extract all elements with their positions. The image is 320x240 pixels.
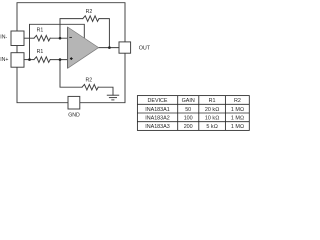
junction node supply tap [28, 58, 31, 61]
table row INA183A2 [145, 116, 244, 122]
wire IN- lead [24, 37, 34, 39]
pin box GND [68, 96, 80, 109]
svg-text:1 MΩ: 1 MΩ [231, 116, 244, 122]
svg-text:5 kΩ: 5 kΩ [206, 124, 217, 130]
op-amp U1 [68, 27, 99, 68]
pin box OUT [119, 42, 131, 53]
wire IN+ supply tap to op-amp top [30, 24, 85, 59]
pin box IN- [11, 31, 24, 46]
svg-text:IN-: IN- [0, 35, 7, 41]
svg-text:GAIN: GAIN [182, 98, 195, 104]
op-amp left edge [67, 27, 69, 68]
svg-text:INA183A1: INA183A1 [145, 107, 170, 113]
svg-text:DEVICE: DEVICE [147, 98, 167, 104]
wire op-amp output [99, 47, 119, 49]
table header row [147, 98, 240, 104]
wire non-inverting node down to R2 bottom [60, 60, 82, 88]
ground symbol [107, 95, 119, 100]
wire R1 top to op-amp inverting input [50, 37, 67, 39]
device outline bottom-right segment [80, 53, 125, 102]
svg-text:INA183A2: INA183A2 [145, 116, 170, 122]
svg-text:50: 50 [185, 107, 191, 113]
op-amp non-inverting input plus sign [70, 57, 73, 60]
wire R2 bottom to ground [98, 87, 113, 95]
op-amp inverting input minus sign [69, 36, 72, 38]
svg-text:R2: R2 [86, 9, 93, 15]
device outline left-bottom segment [17, 67, 68, 103]
svg-text:20 kΩ: 20 kΩ [205, 107, 219, 113]
svg-text:100: 100 [184, 116, 193, 122]
svg-text:1 MΩ: 1 MΩ [231, 124, 244, 130]
table row INA183A3 [145, 124, 244, 130]
svg-text:R1: R1 [209, 98, 216, 104]
pin box IN+ [11, 53, 24, 67]
resistor R2 bottom [82, 84, 98, 90]
svg-text:R1: R1 [37, 28, 44, 34]
resistor R2 feedback [83, 16, 99, 22]
svg-text:OUT: OUT [139, 45, 151, 51]
svg-text:INA183A3: INA183A3 [145, 124, 170, 130]
svg-text:1 MΩ: 1 MΩ [231, 107, 244, 113]
wire IN+ lead [24, 59, 34, 61]
junction node non-inverting input [59, 58, 62, 61]
svg-text:R1: R1 [37, 49, 44, 55]
svg-text:R2: R2 [234, 98, 241, 104]
svg-text:GND: GND [68, 112, 80, 118]
wire R2 feedback to output node [99, 19, 109, 48]
resistor R1 top [34, 35, 50, 41]
wire R1 bottom to op-amp non-inverting input [50, 59, 67, 61]
svg-text:200: 200 [184, 124, 193, 130]
junction node output [108, 46, 111, 49]
junction node inverting input [59, 37, 62, 40]
device outline left segment between input pins [16, 46, 18, 53]
table row INA183A1 [145, 107, 244, 113]
wire feedback riser [60, 19, 83, 39]
device outline top segment [17, 3, 125, 42]
gain table [137, 96, 249, 131]
svg-text:10 kΩ: 10 kΩ [205, 116, 219, 122]
resistor R1 bottom [34, 57, 50, 63]
svg-text:R2: R2 [85, 78, 92, 84]
svg-text:IN+: IN+ [0, 57, 8, 63]
